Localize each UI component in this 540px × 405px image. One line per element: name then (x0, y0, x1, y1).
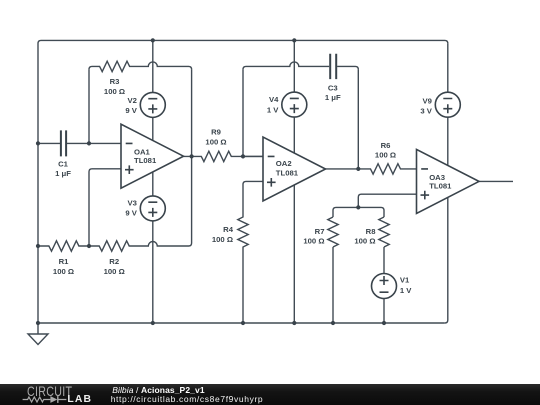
svg-text:V4: V4 (269, 95, 279, 104)
svg-text:V3: V3 (127, 199, 136, 208)
node dot R7 R8 (356, 205, 360, 209)
wire OA1 power top (152, 40, 154, 92)
wire C3 right lead (337, 66, 358, 69)
svg-text:TL081: TL081 (134, 156, 157, 165)
node dot rail R4 (241, 321, 245, 325)
wire node A vertical (88, 69, 90, 143)
voltage source V2 (140, 92, 165, 117)
svg-text:100 Ω: 100 Ω (212, 235, 233, 244)
node dot R1 R2 (87, 244, 91, 248)
svg-text:C3: C3 (328, 83, 338, 92)
svg-text:C1: C1 (58, 160, 69, 169)
wire C3 junction vertical (242, 69, 244, 156)
footer title line (112, 386, 204, 394)
svg-text:100 Ω: 100 Ω (354, 237, 375, 246)
wire OA2 bottom to rail (293, 185, 295, 323)
logo schematic glyph (22, 384, 70, 405)
wire OA3 bottom to rail (445, 197, 448, 323)
node dot R6 left (356, 167, 360, 171)
svg-text:R6: R6 (381, 141, 391, 150)
node dot rail V1 (382, 321, 386, 325)
wire V3 to bottom rail (152, 221, 154, 323)
svg-text:TL081: TL081 (276, 169, 299, 178)
wire top rail (41, 40, 448, 43)
wire bottom rail (38, 322, 445, 324)
wire C3 right vertical to R6 node (357, 69, 359, 168)
ground (28, 323, 48, 345)
svg-text:100 Ω: 100 Ω (375, 151, 396, 160)
wire OA2 power top (293, 40, 295, 92)
wire C1 left lead (38, 142, 60, 144)
capacitor C3 (330, 54, 336, 79)
wire OA1 noninverting input (89, 169, 121, 246)
wire OA3 noninverting net (358, 194, 416, 207)
capacitor C3 row with hop (243, 62, 329, 70)
svg-text:V1: V1 (400, 276, 410, 285)
svg-text:100 Ω: 100 Ω (205, 138, 226, 147)
node dot C1 left (36, 141, 40, 145)
svg-text:R3: R3 (110, 77, 120, 86)
wire V2 to OA1 (152, 117, 154, 140)
svg-text:9 V: 9 V (125, 106, 137, 115)
op-amp OA2 (263, 137, 326, 201)
node dot rail V3 (151, 321, 155, 325)
voltage source V3 (140, 196, 165, 221)
node dot R1 left (36, 244, 40, 248)
svg-text:1 V: 1 V (400, 286, 412, 295)
svg-text:100 Ω: 100 Ω (104, 87, 125, 96)
resistor R7 (328, 217, 338, 247)
voltage source V4 (282, 92, 307, 117)
node dot rail OA2 (292, 321, 296, 325)
wire OA3 output (479, 180, 513, 182)
node dot R9 right (241, 154, 245, 158)
wire feedback right vertical (191, 69, 193, 243)
svg-text:100 Ω: 100 Ω (303, 237, 324, 246)
svg-text:R1: R1 (59, 257, 70, 266)
resistor R8 (379, 217, 389, 247)
wire R8 to V1 (383, 247, 385, 274)
node dot rail ground (36, 321, 40, 325)
voltage source V1 (372, 274, 397, 299)
svg-text:1 V: 1 V (267, 105, 279, 114)
node dot OA1 output (190, 154, 194, 158)
svg-text:100 Ω: 100 Ω (53, 267, 74, 276)
wire R7 R8 top row (333, 207, 384, 217)
svg-text:R9: R9 (211, 127, 221, 136)
svg-text:R7: R7 (315, 227, 325, 236)
voltage source V9 (435, 92, 460, 117)
footer url line (111, 395, 264, 403)
svg-text:R8: R8 (366, 227, 377, 236)
svg-text:100 Ω: 100 Ω (104, 267, 125, 276)
wire V9 to OA3 top (447, 117, 449, 166)
node dot C1 right (87, 141, 91, 145)
resistor R6 (358, 164, 416, 174)
wire V4 to OA2 (293, 117, 295, 153)
wire R7 bottom (332, 247, 334, 323)
svg-text:1 μF: 1 μF (55, 169, 71, 178)
wire to OA2 inverting input (243, 155, 263, 157)
resistor R3 (89, 61, 192, 71)
svg-text:9 V: 9 V (125, 209, 137, 218)
wire left rail (38, 40, 41, 323)
wire V9 top lead (447, 43, 449, 92)
svg-text:1 μF: 1 μF (325, 93, 341, 102)
wire V1 bottom (383, 299, 385, 324)
logo LAB (67, 395, 92, 405)
resistor R4 with OA2 plus wire (238, 181, 263, 323)
svg-text:OA2: OA2 (276, 159, 292, 168)
svg-text:3 V: 3 V (420, 106, 432, 115)
resistor R1 and resistor R2 row (38, 241, 192, 251)
logo CIRCUIT (27, 384, 72, 398)
op-amp OA3 (417, 149, 480, 213)
svg-text:TL081: TL081 (429, 181, 452, 190)
capacitor C1 (61, 130, 66, 156)
svg-text:R2: R2 (109, 257, 119, 266)
node dot top rail OA1 col (151, 38, 155, 42)
node dot rail R7 (331, 321, 335, 325)
svg-text:R4: R4 (223, 225, 234, 234)
wire OA1 to V3 (152, 173, 154, 196)
svg-text:V2: V2 (127, 96, 136, 105)
wire C1 right lead to OA1 inverting input (67, 142, 121, 144)
resistor R9 with OA1 output stub (184, 151, 264, 161)
op-amp OA1 (121, 124, 184, 188)
svg-text:V9: V9 (422, 97, 431, 106)
node dot top rail OA2 col (292, 38, 296, 42)
wire OA2 output (326, 168, 359, 170)
